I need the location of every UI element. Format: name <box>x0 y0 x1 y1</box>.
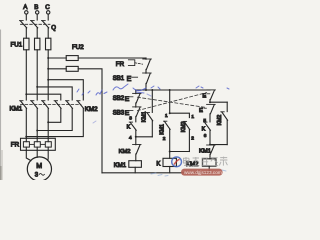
svg-text:1: 1 <box>165 113 168 119</box>
KM2 main contact pole 2 <box>66 101 73 109</box>
wire A switch to FU1 <box>25 28 27 38</box>
button SB3 contact (col1) <box>130 107 141 122</box>
svg-text:KM2: KM2 <box>119 149 131 155</box>
wire KM2 out3 crossover to A <box>26 108 83 136</box>
svg-text:FU2: FU2 <box>72 44 84 51</box>
KM1 main contact pole B <box>31 101 38 109</box>
wire tap A to KM2 left column <box>26 94 61 100</box>
button E (SB? linked pole, top right) <box>202 90 215 102</box>
FR heater element B <box>34 142 40 147</box>
svg-text:K: K <box>202 126 206 132</box>
svg-text:SB1: SB1 <box>113 76 125 82</box>
loop top to KM2 self-hold <box>210 101 227 103</box>
watermark text 电动机之家 (pseudo CJK strokes) <box>183 157 227 166</box>
wire loop bottom <box>210 144 227 146</box>
svg-text:E: E <box>202 93 206 99</box>
svg-text:KM1: KM1 <box>159 124 165 135</box>
button E (second linked pole) <box>199 104 215 122</box>
svg-text:A: A <box>23 4 28 11</box>
wire self-hold join <box>136 136 153 138</box>
contactor KM2 NO self-hold contact <box>221 102 228 144</box>
wire B switch to FU1 <box>36 28 38 38</box>
contact linkage (dashed) <box>21 104 82 106</box>
svg-text:KM2: KM2 <box>217 115 223 126</box>
svg-text:FU1: FU1 <box>11 42 23 49</box>
terminal B <box>34 4 39 20</box>
contactor KM1 NO contact to K coil <box>164 121 171 158</box>
svg-text:4: 4 <box>129 135 132 141</box>
svg-text:E: E <box>199 108 203 114</box>
mechanical link SB2 to E2 (dashed) <box>137 97 206 107</box>
switch Q pole 1 <box>20 21 27 28</box>
wire B KM1 contact to FR <box>36 108 38 138</box>
coil KM2 <box>202 159 216 166</box>
wire KM2 coil to bus <box>208 166 210 173</box>
motor M 3~ <box>27 157 51 181</box>
switch Q pole 3 <box>42 21 49 28</box>
wire tap C to KM2 right column <box>48 80 83 100</box>
KM1 main contact pole C <box>42 101 49 109</box>
contactor KM2 NC interlock contact <box>133 145 141 161</box>
coil KM1 <box>129 161 142 168</box>
FR heater leads inside box <box>26 138 48 150</box>
svg-text:KM2: KM2 <box>181 121 187 132</box>
thermal relay FR heater box <box>21 138 56 150</box>
fuse FU1 phase B <box>35 38 40 50</box>
wire C FU1 to KM1 contact <box>47 50 49 100</box>
KM2 main contact pole 1 <box>54 101 61 109</box>
terminal C <box>45 4 50 20</box>
wire FR to motor B <box>36 150 38 157</box>
svg-text:SB3: SB3 <box>113 111 125 117</box>
wire C switch to FU1 <box>47 28 49 38</box>
KM1 main contact pole A <box>20 101 27 109</box>
svg-text:KM2: KM2 <box>85 106 98 113</box>
wire tap C to FU2 upper fuse <box>48 57 66 59</box>
thermal relay FR NC contact <box>128 58 151 72</box>
svg-text:2: 2 <box>191 136 194 142</box>
junction dots crossover <box>25 121 49 137</box>
terminal A <box>23 4 28 20</box>
relay contact K (3-4) <box>129 122 136 145</box>
svg-text:KM1: KM1 <box>114 163 127 169</box>
branch split to KM2 NO column <box>170 113 190 117</box>
svg-text:1: 1 <box>191 114 194 120</box>
scan edge left border <box>0 30 2 180</box>
svg-text:M: M <box>36 163 42 170</box>
bottom bus <box>102 172 210 174</box>
scan smudge bottom-left corner <box>0 150 3 180</box>
fuse FU2 lower <box>66 66 78 71</box>
wire B FU1 to KM1 contact <box>36 50 38 100</box>
svg-text:Q: Q <box>51 25 56 31</box>
contactor KM2 NO contact <box>183 121 190 151</box>
switch Q pole 2 <box>31 21 38 28</box>
contactor KM1 NO self-hold contact <box>146 90 153 137</box>
button SB1 NC contact <box>132 72 151 90</box>
wire A FU1 to KM1 contact <box>25 50 27 100</box>
wire FR to motor C <box>47 150 49 160</box>
svg-text:E: E <box>127 76 132 83</box>
wire A KM1 contact to FR <box>25 108 27 138</box>
wire FU2 upper to control feed <box>78 57 146 59</box>
svg-text:3: 3 <box>129 116 132 122</box>
svg-text:SB2: SB2 <box>113 96 125 102</box>
FR internal dashes <box>30 143 34 145</box>
svg-text:2: 2 <box>163 136 166 142</box>
junction dots on taps <box>25 57 49 95</box>
wire KM2 out2 crossover to B <box>37 108 72 130</box>
relay contact K (5-6) <box>204 122 211 145</box>
svg-text:E: E <box>125 96 130 103</box>
svg-text:KM1: KM1 <box>199 148 211 154</box>
blue pen watermark scribbles <box>77 84 229 123</box>
branch col2 from rail <box>169 90 171 113</box>
rail node <box>136 89 210 91</box>
svg-text:B: B <box>34 4 38 11</box>
mechanical link SB3 to E1 (dashed) <box>137 93 206 111</box>
wire tap C to FU2 lower fuse <box>48 68 66 70</box>
coil K <box>163 158 176 166</box>
fuse FU1 phase C <box>46 38 51 50</box>
wire C KM1 contact to FR <box>47 108 49 138</box>
fuse FU1 phase A <box>24 38 29 50</box>
wire KM1 coil to bus <box>134 167 136 173</box>
wire FR to motor A <box>26 150 31 160</box>
fuse FU2 upper <box>66 56 78 61</box>
watermark logo (bottom right) <box>172 157 182 167</box>
svg-text:KM1: KM1 <box>10 106 23 113</box>
svg-text:3: 3 <box>35 173 39 179</box>
svg-text:C: C <box>45 4 50 11</box>
svg-text:K: K <box>127 125 131 131</box>
wire K coil to bus <box>169 167 171 173</box>
switch Q linkage (dashed) <box>21 23 51 25</box>
svg-text:www.dgjs123.com: www.dgjs123.com <box>184 170 222 175</box>
svg-text:K: K <box>156 162 160 168</box>
wire FU2 lower to return line <box>78 69 102 173</box>
KM2 main contact pole 3 <box>77 101 84 109</box>
contactor KM1 NC interlock contact <box>207 145 216 159</box>
FR heater element C <box>45 142 51 147</box>
FR heater element A <box>23 142 29 147</box>
button SB2 NO contact (col1) <box>130 90 141 107</box>
faint blue marks near band <box>151 170 226 176</box>
svg-text:FR: FR <box>116 61 125 68</box>
wire KM2-NO branch joins K coil <box>170 151 190 153</box>
watermark red band www.dgjs123.com <box>181 169 223 176</box>
svg-text:FR: FR <box>11 141 20 148</box>
wire tap B to KM2 middle column <box>37 87 72 100</box>
svg-text:6: 6 <box>204 133 207 139</box>
wire KM2 out1 crossover to C <box>48 108 61 122</box>
